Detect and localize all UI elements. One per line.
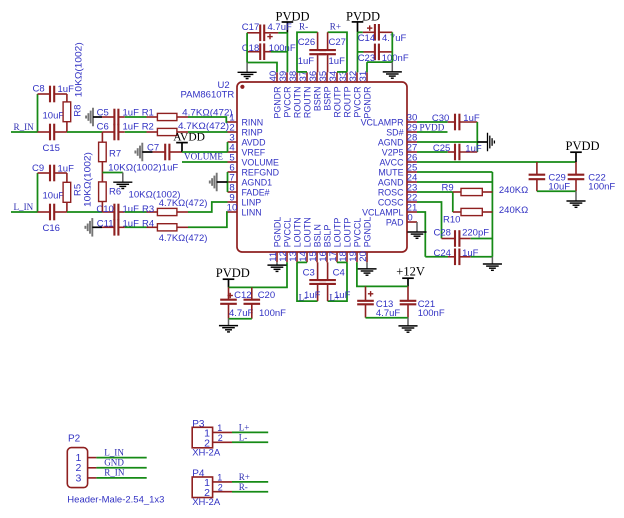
svg-text:10uF: 10uF xyxy=(43,111,65,122)
svg-text:C27: C27 xyxy=(329,37,346,48)
ground xyxy=(86,108,102,127)
wire xyxy=(188,131,228,133)
wire xyxy=(278,32,287,34)
wire xyxy=(188,202,228,212)
pin 35 (BSRP) xyxy=(318,71,333,111)
capacitor C26 xyxy=(298,32,326,72)
svg-text:VCLAMPL: VCLAMPL xyxy=(362,207,403,217)
svg-text:1uF: 1uF xyxy=(58,84,75,95)
svg-text:AGND: AGND xyxy=(378,137,404,147)
svg-text:PVCCR: PVCCR xyxy=(282,87,292,118)
svg-text:C20: C20 xyxy=(258,290,275,301)
svg-text:1uF: 1uF xyxy=(298,56,315,67)
svg-text:XH-2A: XH-2A xyxy=(192,447,221,458)
wire xyxy=(417,151,448,153)
power AVDD xyxy=(173,132,205,152)
svg-text:4.7KΩ(472): 4.7KΩ(472) xyxy=(159,233,208,244)
svg-text:FADE#: FADE# xyxy=(242,187,270,197)
svg-text:10: 10 xyxy=(227,203,238,214)
capacitor C5 xyxy=(97,108,139,126)
wire xyxy=(37,94,39,132)
pin 39 (PVCCR) xyxy=(278,71,293,118)
ground xyxy=(566,191,585,207)
svg-text:R-: R- xyxy=(239,482,248,492)
net label R- xyxy=(299,22,308,32)
ground xyxy=(135,143,152,162)
resistor R7 xyxy=(99,132,162,174)
svg-text:20: 20 xyxy=(358,251,369,262)
svg-text:1: 1 xyxy=(217,473,222,483)
capacitor C17 xyxy=(242,22,292,41)
wire xyxy=(125,131,147,133)
pin 17 (LOUTP) xyxy=(328,218,343,263)
wire xyxy=(11,211,38,213)
pin 0 (PAD) xyxy=(386,213,417,228)
wire xyxy=(232,491,268,493)
svg-text:1uF: 1uF xyxy=(329,56,346,67)
svg-text:C8: C8 xyxy=(33,84,45,95)
svg-text:GND: GND xyxy=(104,458,124,468)
capacitor C12 xyxy=(220,287,253,319)
wire xyxy=(67,131,103,133)
connector P4 xyxy=(192,469,232,509)
connector P3 xyxy=(192,419,232,458)
wire xyxy=(96,467,146,469)
wire xyxy=(417,212,425,257)
wire xyxy=(96,457,146,459)
svg-text:BSLP: BSLP xyxy=(322,225,332,248)
net label GND xyxy=(104,458,124,468)
pin 15 (BSLN) xyxy=(308,224,323,262)
pin 27 (V2P5) xyxy=(382,143,418,158)
svg-text:C9: C9 xyxy=(32,163,44,174)
svg-text:MUTE: MUTE xyxy=(378,167,403,177)
svg-text:LOUTN: LOUTN xyxy=(302,217,312,247)
net label L- xyxy=(239,433,248,443)
svg-text:PGNDR: PGNDR xyxy=(362,87,372,119)
pin 32 (PVCCR) xyxy=(348,71,363,118)
svg-text:C26: C26 xyxy=(298,37,315,48)
svg-text:1uF: 1uF xyxy=(123,204,140,215)
pin 16 (BSLP) xyxy=(318,225,333,263)
svg-text:2: 2 xyxy=(218,433,223,443)
capacitor C14 xyxy=(358,24,407,44)
svg-text:4.7uF: 4.7uF xyxy=(268,22,292,33)
resistor R10 xyxy=(443,205,528,226)
pin 23 (ROSC) xyxy=(378,183,417,198)
svg-text:ROUTP: ROUTP xyxy=(342,86,352,117)
svg-text:BSRP: BSRP xyxy=(322,86,332,110)
capacitor C23 xyxy=(358,44,409,64)
pin 25 (MUTE) xyxy=(378,163,417,178)
svg-text:R10: R10 xyxy=(443,215,460,226)
svg-text:10uF: 10uF xyxy=(43,191,65,202)
capacitor C22 xyxy=(568,162,616,193)
svg-text:V2P5: V2P5 xyxy=(382,147,404,157)
svg-text:PVDD: PVDD xyxy=(420,122,445,132)
svg-text:RINP: RINP xyxy=(242,127,263,137)
svg-text:VOLUME: VOLUME xyxy=(242,157,280,167)
pin 33 (ROUTP) xyxy=(338,71,353,118)
wire xyxy=(297,71,307,73)
wire xyxy=(246,33,248,63)
svg-text:C5: C5 xyxy=(97,108,109,119)
svg-text:LOUTP: LOUTP xyxy=(332,218,342,248)
svg-text:240KΩ: 240KΩ xyxy=(499,205,528,216)
wire xyxy=(102,172,122,174)
svg-text:R_IN: R_IN xyxy=(104,468,125,478)
svg-text:PVCCR: PVCCR xyxy=(352,87,362,118)
svg-text:PVCCL: PVCCL xyxy=(352,218,362,248)
svg-text:1uF: 1uF xyxy=(162,163,179,174)
svg-text:BSLN: BSLN xyxy=(312,224,322,247)
svg-text:C3: C3 xyxy=(303,268,315,279)
wire xyxy=(337,71,347,73)
capacitor C24 xyxy=(434,248,479,265)
wire xyxy=(297,262,318,301)
svg-text:R8: R8 xyxy=(72,105,83,117)
net label R_IN xyxy=(14,122,35,132)
wire xyxy=(182,151,228,153)
svg-text:220pF: 220pF xyxy=(462,228,489,239)
capacitor C7 xyxy=(147,143,182,174)
pin 2 (RINP) xyxy=(228,123,263,138)
svg-text:R1: R1 xyxy=(142,108,154,119)
svg-text:PVDD: PVDD xyxy=(216,266,250,280)
svg-text:C16: C16 xyxy=(43,223,60,234)
capacitor C30 xyxy=(432,113,480,130)
svg-text:1uF: 1uF xyxy=(334,290,351,301)
wire xyxy=(537,190,576,192)
svg-text:L-: L- xyxy=(239,433,248,443)
pin 31 (PGNDR) xyxy=(358,71,373,119)
pin 9 (LINP) xyxy=(228,193,262,208)
wire xyxy=(471,238,493,240)
pin 3 (AVDD) xyxy=(228,133,266,148)
capacitor C18 xyxy=(242,43,296,60)
svg-text:PGNDL: PGNDL xyxy=(362,217,372,248)
ground xyxy=(483,257,502,271)
svg-text:1uF: 1uF xyxy=(465,143,482,154)
net label PVDD xyxy=(420,122,445,132)
pin 14 (LOUTN) xyxy=(298,217,313,262)
capacitor C21 xyxy=(400,286,445,319)
svg-text:R-: R- xyxy=(299,22,308,32)
capacitor C25 xyxy=(433,143,482,161)
ground xyxy=(219,319,238,332)
capacitor C16 xyxy=(38,191,67,235)
svg-text:100nF: 100nF xyxy=(259,308,286,319)
svg-text:AGND1: AGND1 xyxy=(242,177,273,187)
wire xyxy=(417,131,448,133)
pin 40 (PGNDR) xyxy=(268,71,283,119)
pin 26 (AVCC) xyxy=(380,153,418,168)
svg-text:10KΩ(1002): 10KΩ(1002) xyxy=(74,42,85,97)
wire xyxy=(188,212,228,227)
pin 12 (PVCCL) xyxy=(278,218,293,263)
svg-text:RINN: RINN xyxy=(242,117,264,127)
pin 30 (VCLAMPR) xyxy=(361,113,418,128)
svg-text:LINP: LINP xyxy=(242,197,262,207)
svg-text:R3: R3 xyxy=(142,204,154,215)
wire xyxy=(125,211,147,213)
wire xyxy=(417,171,492,173)
pin 34 (ROUTP) xyxy=(328,70,343,117)
wire xyxy=(125,226,147,228)
svg-text:R9: R9 xyxy=(442,183,454,194)
svg-text:2: 2 xyxy=(218,483,223,493)
net label L+ xyxy=(239,423,250,433)
power +12V xyxy=(396,265,425,287)
svg-text:4.7uF: 4.7uF xyxy=(229,308,253,319)
svg-text:4.7KΩ(472): 4.7KΩ(472) xyxy=(178,121,229,132)
net label VOLUME xyxy=(184,152,223,162)
svg-text:240KΩ: 240KΩ xyxy=(499,185,528,196)
power PVDD xyxy=(346,10,380,33)
ground xyxy=(407,222,426,238)
svg-text:PAM8610TR: PAM8610TR xyxy=(181,90,235,101)
pin 7 (AGND1) xyxy=(228,173,273,188)
connector P2 xyxy=(67,434,164,506)
svg-text:C18: C18 xyxy=(242,43,259,54)
svg-text:REFGND: REFGND xyxy=(242,167,279,177)
capacitor C4 xyxy=(319,262,350,301)
capacitor C9 xyxy=(32,163,74,181)
svg-text:PGNDL: PGNDL xyxy=(272,217,282,248)
svg-text:1: 1 xyxy=(217,423,222,433)
svg-text:4.7uF: 4.7uF xyxy=(382,33,406,44)
capacitor C10 xyxy=(96,204,139,221)
pin 28 (AGND) xyxy=(378,133,417,148)
svg-text:L_IN: L_IN xyxy=(14,202,34,212)
capacitor C15 xyxy=(38,111,67,155)
svg-text:VOLUME: VOLUME xyxy=(184,152,223,162)
pin 38 (ROUTN) xyxy=(288,71,303,118)
svg-text:PVCCL: PVCCL xyxy=(282,218,292,248)
svg-text:VREF: VREF xyxy=(242,147,266,157)
wire xyxy=(37,173,39,212)
net label R- xyxy=(239,482,248,492)
ground xyxy=(238,63,257,79)
ground xyxy=(383,62,402,78)
wire xyxy=(232,431,268,433)
svg-text:Header-Male-2.54_1x3: Header-Male-2.54_1x3 xyxy=(67,494,164,505)
wire xyxy=(417,121,448,123)
wire xyxy=(358,31,363,33)
svg-text:COSC: COSC xyxy=(378,197,404,207)
wire xyxy=(297,261,307,263)
wire xyxy=(417,141,477,143)
svg-text:1uF: 1uF xyxy=(304,290,321,301)
svg-text:LOUTP: LOUTP xyxy=(342,218,352,248)
svg-text:AVCC: AVCC xyxy=(380,157,405,167)
wire xyxy=(67,211,103,213)
svg-text:1uF: 1uF xyxy=(123,121,140,132)
svg-text:C15: C15 xyxy=(43,143,60,154)
svg-text:LINN: LINN xyxy=(242,207,262,217)
svg-text:C11: C11 xyxy=(97,218,114,229)
pin 18 (LOUTP) xyxy=(338,218,353,263)
svg-text:C14: C14 xyxy=(358,33,375,44)
wire xyxy=(471,256,493,258)
resistor R2 xyxy=(142,121,229,136)
svg-text:R2: R2 xyxy=(142,121,154,132)
wire xyxy=(417,191,453,193)
ground xyxy=(113,173,132,189)
svg-text:L+: L+ xyxy=(239,423,250,433)
wire xyxy=(358,51,364,53)
svg-text:SD#: SD# xyxy=(386,127,403,137)
wire xyxy=(96,477,146,479)
svg-text:ROSC: ROSC xyxy=(378,187,404,197)
svg-text:ROUTN: ROUTN xyxy=(302,87,312,119)
wire xyxy=(366,317,409,319)
wire xyxy=(232,481,268,483)
pin 22 (COSC) xyxy=(378,193,417,208)
wire xyxy=(452,192,454,212)
capacitor C28 xyxy=(434,228,490,247)
net label R_IN xyxy=(104,468,125,478)
resistor R8 xyxy=(63,42,84,132)
wire xyxy=(337,261,347,263)
svg-text:ROUTP: ROUTP xyxy=(332,86,342,117)
pin 11 (PGNDL) xyxy=(268,217,283,263)
capacitor C11 xyxy=(97,218,139,235)
net label L- xyxy=(299,293,308,303)
wire xyxy=(417,181,492,183)
svg-text:3: 3 xyxy=(75,472,81,484)
svg-text:PVDD: PVDD xyxy=(566,139,600,153)
wire xyxy=(182,161,228,163)
capacitor C13 xyxy=(357,286,400,319)
IC U2 PAM8610TR body xyxy=(181,80,408,252)
wire xyxy=(271,51,287,53)
pin 37 (ROUTN) xyxy=(298,71,313,118)
wire xyxy=(491,172,493,257)
net label L+ xyxy=(329,293,340,303)
svg-text:ROUTN: ROUTN xyxy=(292,87,302,119)
svg-text:C7: C7 xyxy=(147,143,159,154)
ground xyxy=(267,262,286,271)
resistor R6 xyxy=(99,173,181,213)
capacitor C27 xyxy=(319,32,346,72)
svg-text:BSRN: BSRN xyxy=(312,87,322,112)
pin 36 (BSRN) xyxy=(308,71,323,111)
pin 8 (FADE#) xyxy=(228,183,270,198)
svg-text:C4: C4 xyxy=(333,268,345,279)
pin 6 (REFGND) xyxy=(228,163,279,178)
ground xyxy=(357,262,376,275)
wire xyxy=(229,262,288,287)
ground xyxy=(85,218,102,237)
wire xyxy=(125,116,147,118)
svg-text:100nF: 100nF xyxy=(418,308,445,319)
net label L_IN xyxy=(14,202,34,212)
wire xyxy=(297,32,318,72)
wire xyxy=(232,441,268,443)
wire xyxy=(227,172,229,192)
wire xyxy=(286,33,288,73)
wire xyxy=(417,202,442,239)
wire xyxy=(328,32,347,72)
wire xyxy=(367,61,392,63)
svg-text:10KΩ(1002): 10KΩ(1002) xyxy=(83,152,94,207)
ground xyxy=(210,173,228,192)
wire xyxy=(357,32,359,72)
resistor R1 xyxy=(142,108,233,121)
wire xyxy=(227,142,229,152)
svg-text:R6: R6 xyxy=(109,187,121,198)
wire xyxy=(366,62,368,72)
svg-text:PGNDR: PGNDR xyxy=(272,87,282,119)
wire xyxy=(425,256,448,258)
wire xyxy=(11,131,38,133)
capacitor C6 xyxy=(97,121,139,140)
pin 13 (LOUTN) xyxy=(288,217,303,262)
net label R+ xyxy=(330,22,341,32)
svg-text:+12V: +12V xyxy=(396,265,425,279)
svg-text:C10: C10 xyxy=(96,204,113,215)
resistor R9 xyxy=(442,183,529,196)
svg-text:1uF: 1uF xyxy=(58,163,75,174)
capacitor C8 xyxy=(33,84,75,103)
pin 20 (PGNDL) xyxy=(358,217,373,263)
wire xyxy=(229,318,252,320)
svg-text:0: 0 xyxy=(407,213,412,224)
pin 10 (LINN) xyxy=(227,203,262,218)
wire xyxy=(417,161,576,163)
svg-text:AVDD: AVDD xyxy=(242,137,266,147)
svg-text:PAD: PAD xyxy=(386,217,404,227)
resistor R4 xyxy=(142,218,207,244)
svg-text:XH-2A: XH-2A xyxy=(192,497,221,508)
svg-text:R+: R+ xyxy=(239,472,250,482)
power PVDD xyxy=(566,139,600,162)
svg-text:R+: R+ xyxy=(330,22,341,32)
wire xyxy=(391,32,393,62)
wire xyxy=(476,122,478,152)
wire xyxy=(357,262,408,286)
svg-text:C17: C17 xyxy=(242,22,259,33)
svg-text:R_IN: R_IN xyxy=(14,122,35,132)
pin 5 (VOLUME) xyxy=(228,153,280,168)
pin 21 (VCLAMPL) xyxy=(362,203,417,218)
resistor R3 xyxy=(142,198,207,215)
svg-text:R4: R4 xyxy=(142,218,154,229)
wire xyxy=(328,262,347,301)
pin 24 (AGND) xyxy=(378,173,418,188)
pin 4 (VREF) xyxy=(228,143,266,158)
pin 1 (RINN) xyxy=(228,113,264,128)
pin 19 (PVCCL) xyxy=(348,218,363,263)
svg-text:AGND: AGND xyxy=(378,177,404,187)
svg-text:C6: C6 xyxy=(97,121,109,132)
net label R+ xyxy=(239,472,250,482)
capacitor C29 xyxy=(529,162,571,193)
svg-text:31: 31 xyxy=(358,71,369,82)
svg-text:LOUTN: LOUTN xyxy=(292,217,302,247)
svg-text:100nF: 100nF xyxy=(588,182,615,193)
resistor R5 xyxy=(63,152,93,212)
power PVDD xyxy=(216,266,250,287)
svg-text:10KΩ(1002): 10KΩ(1002) xyxy=(129,189,181,200)
wire xyxy=(247,63,277,73)
svg-text:P2: P2 xyxy=(68,434,81,445)
power PVDD xyxy=(276,10,310,33)
svg-text:R7: R7 xyxy=(109,149,121,160)
net label L_IN xyxy=(104,448,124,458)
svg-text:L_IN: L_IN xyxy=(104,448,124,458)
